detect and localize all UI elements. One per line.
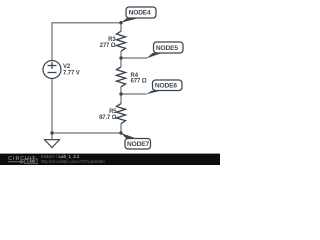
svg-text:277 Ω: 277 Ω xyxy=(100,43,116,49)
svg-text:677 Ω: 677 Ω xyxy=(131,79,147,85)
svg-text:NODE5: NODE5 xyxy=(156,45,178,52)
svg-text:87.7 Ω: 87.7 Ω xyxy=(99,115,117,121)
svg-text:NODE7: NODE7 xyxy=(127,141,149,148)
svg-text:V2: V2 xyxy=(63,64,71,70)
svg-text:7.77 V: 7.77 V xyxy=(63,70,80,76)
svg-text:NODE4: NODE4 xyxy=(129,10,151,17)
svg-text:http://circuitlab.com/c/737vwp: http://circuitlab.com/c/737vwp6N8d xyxy=(41,159,105,164)
svg-text:NODE6: NODE6 xyxy=(155,83,177,90)
svg-text:R5: R5 xyxy=(109,109,117,115)
svg-text:LAB: LAB xyxy=(27,159,35,164)
svg-text:R3: R3 xyxy=(108,37,116,43)
